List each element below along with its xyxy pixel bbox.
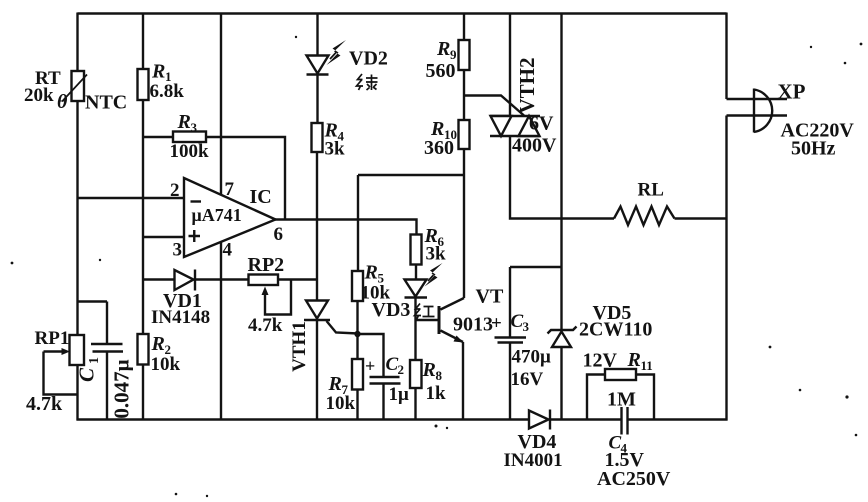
- svg-text:1k: 1k: [426, 383, 447, 404]
- svg-text:R: R: [151, 61, 165, 83]
- wire R4 to VTH1 anode (crosses pin6 wire, node with RP2 wire): [316, 152, 318, 301]
- wire VD5 anode to bottom rail: [560, 347, 562, 420]
- svg-text:NTC: NTC: [85, 92, 127, 114]
- svg-text:20k: 20k: [24, 85, 54, 106]
- wire VT emitter to bottom rail: [462, 342, 464, 420]
- wire XP upper prong: [727, 98, 788, 100]
- svg-text:2CW110: 2CW110: [579, 319, 652, 341]
- resistor R3: [173, 132, 206, 143]
- resistor R8: [410, 360, 422, 388]
- diode VD4: [529, 410, 550, 430]
- capacitor C2 (electrolytic): [370, 377, 401, 384]
- svg-text:400V: 400V: [512, 135, 557, 157]
- svg-text:4.7k: 4.7k: [248, 315, 283, 336]
- svg-text:+: +: [491, 313, 502, 334]
- svg-text:100k: 100k: [170, 141, 210, 162]
- wire op-amp pin4 to bottom rail: [220, 242, 222, 420]
- resistor R2: [138, 334, 149, 365]
- wire op-amp pin7 supply from top rail: [220, 14, 222, 196]
- wire triac top to supply rail: [509, 14, 511, 117]
- triac VTH2: [490, 116, 540, 136]
- svg-text:9013: 9013: [453, 314, 493, 336]
- capacitor C3 (electrolytic): [495, 338, 527, 343]
- wire R1/R2 branch from top rail: [142, 14, 144, 70]
- diode VD1: [175, 270, 196, 291]
- wire R8 to bottom rail: [414, 388, 416, 420]
- wire DC bus from top rail through VD5 branch: [560, 14, 562, 331]
- wire R11 left leg: [587, 375, 605, 421]
- svg-text:R: R: [177, 111, 191, 133]
- wire R7 to bottom rail: [356, 390, 358, 421]
- wire pin2 inverting input from RT node: [78, 197, 185, 199]
- thermistor RT (NTC): [62, 71, 87, 102]
- svg-text:VTH2: VTH2: [515, 57, 539, 113]
- resistor R9: [459, 40, 470, 70]
- resistor R11: [605, 369, 636, 380]
- svg-text:6V: 6V: [529, 113, 554, 135]
- wire VD2 to R4: [316, 75, 318, 124]
- wire right border lower: [725, 116, 727, 421]
- svg-text:θ: θ: [57, 91, 68, 113]
- svg-text:VTH1: VTH1: [289, 321, 310, 372]
- wire gate node to C2: [358, 334, 384, 377]
- transistor VT 9013: [438, 298, 465, 343]
- svg-text:C: C: [75, 367, 99, 382]
- svg-text:VT: VT: [476, 286, 504, 308]
- wire pin6 output to R6: [275, 220, 417, 235]
- svg-text:4.7k: 4.7k: [26, 393, 63, 415]
- svg-text:3: 3: [173, 240, 183, 261]
- svg-text:2: 2: [170, 180, 180, 201]
- wire triac VTH2 gate: [464, 96, 524, 116]
- svg-text:16V: 16V: [511, 369, 544, 390]
- svg-text:R: R: [627, 349, 641, 371]
- wire R5 branch (from R10/collector line): [358, 175, 464, 271]
- zener diode VD5: [548, 327, 577, 348]
- svg-text:+: +: [365, 356, 375, 376]
- svg-text:XP: XP: [778, 80, 806, 104]
- wire VT base: [416, 319, 438, 321]
- svg-text:RP1: RP1: [35, 328, 70, 349]
- plug XP body: [754, 89, 772, 133]
- wire right border upper (plug to top rail): [725, 13, 727, 100]
- thyristor VTH1: [304, 301, 358, 334]
- op-amp plus sign: [189, 230, 201, 242]
- svg-text:IC: IC: [250, 186, 272, 208]
- svg-text:560: 560: [426, 60, 456, 82]
- svg-text:3k: 3k: [325, 139, 346, 160]
- wire bottom rail VD4 to C4: [550, 418, 621, 420]
- svg-text:470μ: 470μ: [512, 347, 552, 368]
- svg-text:IN4001: IN4001: [504, 450, 563, 471]
- wire bottom rail C4 to right corner: [628, 418, 728, 420]
- node junction dot: [354, 331, 360, 337]
- wire R10 bottom to VT collector (node with R5 wire): [463, 149, 465, 298]
- wire R2 bottom to bottom rail: [142, 365, 144, 421]
- svg-text:2: 2: [398, 362, 405, 377]
- LED VD3 (red): [405, 263, 443, 298]
- resistor R1: [138, 69, 149, 100]
- wire R3 right to pin6 output (feedback): [206, 137, 285, 220]
- svg-text:8: 8: [436, 368, 443, 383]
- wire left border (RT/RP1 branch): [76, 13, 78, 421]
- svg-text:4: 4: [223, 240, 233, 261]
- svg-text:10k: 10k: [151, 354, 181, 375]
- capacitor C4 (in series in bottom rail): [622, 407, 628, 435]
- svg-text:7: 7: [225, 179, 235, 200]
- op-amp U1 (uA741): [184, 178, 276, 257]
- wire triac bottom to RL (crosses VD5 line): [510, 136, 614, 219]
- glyph green (Chinese): [357, 74, 378, 90]
- wire R9 to R10 (triac gate node): [463, 70, 465, 120]
- svg-text:0.047μ: 0.047μ: [110, 359, 134, 418]
- svg-text:6: 6: [274, 224, 284, 245]
- wire jog down to C3: [509, 267, 511, 337]
- wire R9 branch from top rail: [463, 14, 465, 41]
- wire VD1 cathode to RP2: [195, 278, 249, 280]
- svg-text:1M: 1M: [607, 389, 636, 411]
- op-amp minus sign: [191, 200, 202, 202]
- svg-text:10k: 10k: [326, 393, 356, 414]
- wire R6 to VD3: [415, 265, 417, 280]
- potentiometer RP1: [44, 335, 85, 395]
- svg-text:1: 1: [87, 357, 102, 364]
- svg-text:VD3: VD3: [372, 299, 411, 321]
- wire C3 bottom to bottom rail: [509, 343, 511, 421]
- wire top supply rail: [78, 12, 727, 14]
- svg-text:R: R: [422, 359, 436, 381]
- capacitor C1: [78, 302, 124, 421]
- svg-text:μA741: μA741: [192, 205, 242, 225]
- resistor R6: [411, 235, 422, 265]
- wire bottom rail left of VD4: [77, 418, 530, 420]
- svg-text:AC250V: AC250V: [597, 468, 671, 490]
- glyph red (Chinese): [415, 304, 435, 320]
- svg-text:R: R: [328, 373, 342, 395]
- wire jog C3 top to VD5 line: [510, 266, 562, 268]
- wire VTH1 cathode to bottom rail: [316, 320, 318, 420]
- resistor R4: [312, 123, 323, 152]
- svg-text:1μ: 1μ: [389, 384, 410, 405]
- resistor R10: [459, 120, 470, 149]
- svg-text:R: R: [151, 333, 165, 355]
- svg-text:3: 3: [523, 319, 530, 334]
- label C1 (rotated): [75, 357, 103, 382]
- wire R3 left: [143, 136, 173, 138]
- wire R11 right leg: [636, 375, 654, 421]
- resistor R7: [352, 359, 363, 390]
- wire R5 to R7 (VTH1 gate node): [356, 301, 358, 359]
- wire pin3 non-inverting input: [143, 236, 184, 238]
- svg-text:3k: 3k: [426, 244, 447, 265]
- wire VD2 branch from top rail: [316, 14, 318, 56]
- svg-text:RL: RL: [638, 180, 664, 201]
- svg-text:R: R: [436, 38, 450, 60]
- LED VD2 (green): [307, 40, 347, 75]
- wire R1 bottom to R2 (node of pin3, R3, VD1): [142, 100, 144, 334]
- svg-text:VD2: VD2: [349, 48, 388, 70]
- svg-text:6.8k: 6.8k: [150, 81, 185, 102]
- svg-text:RP2: RP2: [248, 254, 285, 276]
- svg-text:R: R: [364, 262, 378, 284]
- svg-text:360: 360: [424, 137, 454, 159]
- resistor RL (zigzag): [614, 207, 675, 226]
- wire XP lower prong: [727, 114, 788, 116]
- svg-text:IN4148: IN4148: [151, 307, 210, 328]
- wire VD3 cathode to R8 (node with VT base): [414, 298, 416, 361]
- wire C2 to bottom rail: [382, 384, 384, 421]
- svg-text:3: 3: [191, 120, 198, 135]
- potentiometer RP2: [249, 275, 318, 315]
- wire RL to right border: [675, 217, 727, 219]
- svg-text:11: 11: [641, 358, 653, 373]
- wire VD1 anode from R2 top node: [143, 278, 175, 280]
- svg-text:50Hz: 50Hz: [791, 138, 836, 160]
- resistor R5: [352, 271, 363, 301]
